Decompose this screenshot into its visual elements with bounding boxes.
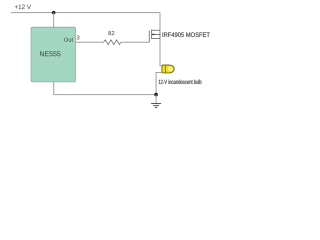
wire NE555 GND pin	[53, 82, 55, 95]
+12V supply net label	[15, 4, 31, 9]
resistor R 82 zigzag	[104, 40, 121, 45]
wire NE555 VCC pin	[53, 13, 55, 28]
junction node dot ground	[154, 93, 158, 97]
wire +12V rail	[11, 12, 160, 14]
wire bulb return to ground node	[156, 73, 162, 95]
wire pin3 to resistor	[76, 41, 104, 43]
wire node to ground symbol	[155, 95, 157, 104]
wire MOSFET drain down to bulb	[160, 39, 162, 66]
transistor label IRF4905 MOSFET	[163, 32, 210, 37]
wire MOSFET source to +12V rail	[159, 13, 161, 31]
IC U1 Out pin name label	[64, 38, 73, 42]
pin number 3 label	[77, 35, 80, 39]
lamp label 12-V incandescent bulb	[159, 80, 202, 84]
junction node dot rail-to-NE555	[52, 11, 56, 15]
wire resistor to MOSFET gate	[121, 41, 149, 43]
resistor value label 82	[108, 31, 114, 35]
IC U1 name label NE555	[40, 51, 60, 56]
lamp 12-V incandescent bulb symbol	[162, 65, 174, 73]
ground symbol	[151, 104, 161, 108]
IC U1 NE555 body	[31, 27, 76, 82]
wire bottom return	[54, 94, 156, 96]
transistor Q1 IRF4905 P-MOSFET symbol	[149, 29, 160, 42]
